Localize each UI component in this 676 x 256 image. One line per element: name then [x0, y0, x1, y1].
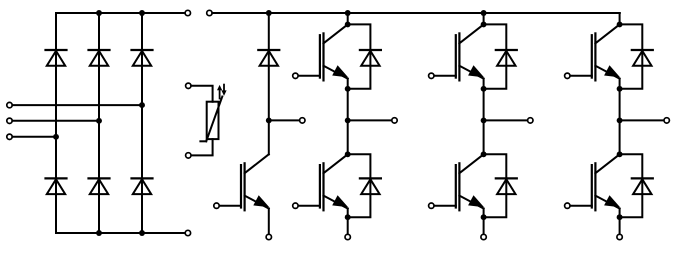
- wire: phase W bottom diode branch: [620, 154, 643, 217]
- terminal: phase U emitter: [345, 234, 350, 239]
- terminal: rectifier DC- output: [185, 230, 190, 235]
- diode DW1 (antiparallel, top): [632, 49, 653, 51]
- terminal: AC input L2: [7, 118, 12, 123]
- wire: phase V output stub: [484, 119, 528, 121]
- terminal: phase U output: [392, 118, 397, 123]
- terminal: thermistor pin 2: [186, 153, 191, 158]
- wire: AC input L3 to rectifier leg: [12, 136, 56, 138]
- node: phase V rail junction: [481, 10, 487, 16]
- wire: phase W output stub: [620, 119, 664, 121]
- diode D1 (rectifier top row): [46, 49, 67, 51]
- node: bottom rail junctions: [96, 230, 102, 236]
- node: phase V bottom rejoin: [481, 214, 487, 220]
- node: phase U output node: [345, 117, 351, 123]
- wire: thermistor bottom lead: [191, 139, 212, 155]
- terminal: phase W emitter: [617, 234, 622, 239]
- diode D2 (rectifier top row): [89, 49, 110, 51]
- node: L1 junction: [139, 102, 145, 108]
- thermistor temperature arrows: [219, 90, 221, 99]
- node: phase W output node: [617, 117, 623, 123]
- transistor Q5 (phase W top IGBT): [595, 24, 619, 43]
- diode D4 (rectifier bottom row): [46, 177, 67, 179]
- node: phase U top rejoin: [345, 86, 351, 92]
- terminal: phase W output: [664, 118, 669, 123]
- node: chopper mid node: [266, 117, 272, 123]
- wire: phase U top diode branch: [348, 24, 371, 88]
- diode DW2 (antiparallel, bottom): [632, 177, 653, 179]
- diode DV1 (antiparallel, top): [496, 49, 517, 51]
- wire: phase V top collector vertical: [483, 13, 485, 24]
- wire: chopper vertical (rail to mid node): [268, 13, 270, 120]
- diode D7 (brake chopper freewheel): [258, 49, 279, 51]
- wire: AC input L1 to rectifier leg: [12, 104, 142, 106]
- wire: phase U output stub: [348, 119, 392, 121]
- transistor Q6 (phase W bottom IGBT): [595, 154, 619, 173]
- node: phase V output node: [481, 117, 487, 123]
- wire: rectifier leg 2 vertical: [98, 13, 100, 233]
- node: phase U rail junction: [345, 10, 351, 16]
- transistor Q2 (phase U bottom IGBT): [324, 154, 348, 173]
- wire: phase V middle vertical: [483, 79, 485, 155]
- wire: phase W top collector vertical: [619, 13, 621, 24]
- node: chopper rail junction: [266, 10, 272, 16]
- wire: chopper output stub: [269, 119, 300, 121]
- wire: phase U middle vertical: [347, 79, 349, 155]
- diode D6 (rectifier bottom row): [132, 177, 153, 179]
- node: phase U top split: [345, 21, 351, 27]
- terminal: phase V emitter: [481, 234, 486, 239]
- node: top rail junctions: [96, 10, 102, 16]
- terminal: rectifier DC+ output: [185, 10, 190, 15]
- terminal: AC input L3: [7, 134, 12, 139]
- node: phase W bottom split: [617, 151, 623, 157]
- wire: phase U bottom diode branch: [348, 154, 371, 217]
- diode D3 (rectifier top row): [132, 49, 153, 51]
- transistor Q7 (brake chopper IGBT): [245, 154, 269, 173]
- wire: rectifier bottom DC- rail: [56, 232, 185, 234]
- transistor Q4 (phase V bottom IGBT): [459, 154, 483, 173]
- wire: rectifier top DC+ rail: [56, 12, 185, 14]
- wire: phase V emitter to terminal: [483, 209, 485, 235]
- wire: phase V bottom diode branch: [484, 154, 507, 217]
- node: phase V top split: [481, 21, 487, 27]
- wire: phase U top collector vertical: [347, 13, 349, 24]
- wire: phase V top diode branch: [484, 24, 507, 88]
- wire: thermistor top lead: [191, 86, 212, 102]
- node: L3 junction: [53, 134, 59, 140]
- wire: chopper collector vertical: [268, 120, 270, 154]
- node: phase V top rejoin: [481, 86, 487, 92]
- terminal: chopper emitter: [266, 234, 271, 239]
- node: phase U bottom split: [345, 151, 351, 157]
- diode DV2 (antiparallel, bottom): [496, 177, 517, 179]
- node: phase W bottom rejoin: [617, 214, 623, 220]
- wire: inverter top DC+ rail: [212, 12, 620, 14]
- node: phase W top split: [617, 21, 623, 27]
- wire: phase W top diode branch: [620, 24, 643, 88]
- terminal: thermistor pin 1: [186, 83, 191, 88]
- wire: phase U emitter to terminal: [347, 209, 349, 235]
- terminal: phase V output: [528, 118, 533, 123]
- wire: phase W middle vertical: [619, 79, 621, 155]
- diode D5 (rectifier bottom row): [89, 177, 110, 179]
- wire: rectifier leg 1 vertical: [55, 13, 57, 233]
- node: phase U bottom rejoin: [345, 214, 351, 220]
- node: phase V bottom split: [481, 151, 487, 157]
- diode DU2 (antiparallel, bottom): [360, 177, 381, 179]
- transistor Q3 (phase V top IGBT): [459, 24, 483, 43]
- thermistor R1 (NTC temperature sensor): [207, 102, 219, 139]
- terminal: inverter DC+ input: [207, 10, 212, 15]
- wire: rectifier leg 3 vertical: [141, 13, 143, 233]
- terminal: chopper output: [300, 118, 305, 123]
- diode DU1 (antiparallel, top): [360, 49, 381, 51]
- node: phase W top rejoin: [617, 86, 623, 92]
- node: L2 junction: [96, 118, 102, 124]
- wire: AC input L2 to rectifier leg: [12, 120, 99, 122]
- transistor Q1 (phase U top IGBT): [324, 24, 348, 43]
- wire: phase W emitter to terminal: [619, 209, 621, 235]
- terminal: AC input L1: [7, 102, 12, 107]
- wire: chopper emitter to terminal: [268, 209, 270, 235]
